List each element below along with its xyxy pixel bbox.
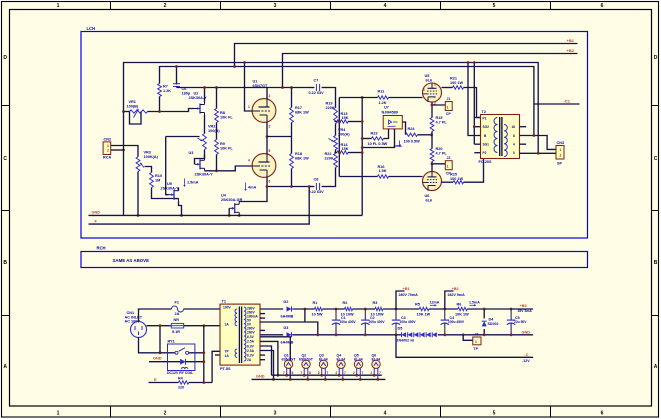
node heater Q4 bus joints	[338, 374, 341, 377]
svg-text:6L6: 6L6	[426, 78, 433, 82]
svg-text:VR2: VR2	[208, 125, 215, 129]
node heater Q5 bus joints	[355, 374, 358, 377]
connector CN1 AC inlet	[131, 322, 147, 338]
svg-text:LCH: LCH	[87, 26, 96, 31]
wire -C rail	[396, 335, 533, 358]
svg-text:100(B): 100(B)	[127, 104, 139, 108]
fuse F1	[172, 306, 184, 312]
wire cathode column upper	[431, 105, 433, 118]
svg-text:1: 1	[57, 411, 60, 417]
svg-text:6SN7GT: 6SN7GT	[282, 357, 297, 361]
svg-text:100(B): 100(B)	[208, 129, 220, 133]
svg-text:PT-5S: PT-5S	[220, 367, 231, 371]
wire heater stair 1	[260, 337, 290, 380]
wire SG2 stub	[474, 126, 480, 128]
svg-text:2: 2	[335, 371, 337, 375]
wire T2 P2 stub	[474, 152, 480, 154]
wire inlet neutral to NR	[147, 325, 172, 327]
svg-text:10K 1W: 10K 1W	[455, 312, 469, 316]
wire U5 drain	[178, 188, 180, 191]
svg-text:1.5mA: 1.5mA	[469, 301, 480, 305]
svg-text:SG2: SG2	[483, 125, 490, 129]
wire cathode2 down	[266, 177, 268, 187]
node C8 F junction	[308, 185, 311, 188]
wire CT return	[260, 322, 318, 335]
wire U5 gate loop	[166, 137, 169, 195]
svg-text:R18: R18	[295, 152, 302, 156]
diode D2	[287, 306, 292, 311]
svg-text:4: 4	[513, 143, 515, 147]
resistor R18	[290, 154, 294, 169]
wire cathode mid link	[431, 131, 433, 148]
svg-text:4: 4	[248, 159, 250, 163]
wire R13 leads	[335, 121, 338, 123]
svg-text:10 10W: 10 10W	[371, 312, 385, 316]
svg-text:1: 1	[57, 3, 60, 9]
wire R3 to R5	[383, 308, 419, 310]
wire C8 to R22	[332, 168, 336, 187]
wire 8 ohm tap to CN3	[520, 136, 557, 150]
resistor R13	[337, 120, 348, 123]
svg-text:RCH: RCH	[97, 246, 106, 251]
node 0 tap junction	[537, 152, 540, 155]
wire plate row 1	[267, 87, 309, 89]
connector CN2 RCA input	[103, 142, 111, 155]
svg-text:2A: 2A	[247, 358, 252, 362]
svg-text:68K 1W: 68K 1W	[295, 157, 309, 161]
T1 core	[238, 307, 240, 364]
svg-text:6A4MB: 6A4MB	[281, 315, 294, 319]
wire relay diode row right	[185, 361, 203, 363]
sheet box LCH	[81, 32, 588, 239]
svg-text:4: 4	[384, 411, 387, 417]
wire cathode1 to plate2	[266, 122, 268, 155]
svg-text:2A: 2A	[175, 312, 180, 316]
wire CN2 pin2	[111, 149, 125, 151]
resistor R9	[215, 140, 219, 155]
transistor U5 2SK30A-Y	[169, 194, 174, 196]
svg-text:1.2K: 1.2K	[163, 89, 171, 93]
svg-text:A: A	[3, 364, 7, 370]
svg-text:6A4MB: 6A4MB	[281, 340, 294, 344]
svg-text:6.3V: 6.3V	[247, 353, 255, 357]
wire R2 to R3	[353, 308, 376, 310]
svg-text:2: 2	[107, 148, 109, 152]
wire VR3 bottom to ground	[137, 172, 139, 216]
svg-text:2: 2	[560, 154, 562, 158]
svg-text:3: 3	[434, 83, 436, 87]
svg-text:RCA: RCA	[103, 155, 111, 159]
svg-text:U2: U2	[194, 92, 199, 96]
svg-text:B: B	[3, 260, 7, 266]
svg-text:280V 70mA: 280V 70mA	[399, 293, 419, 297]
svg-text:5: 5	[269, 149, 271, 153]
node heater Q1 bus joints	[285, 374, 288, 377]
wire U5 source to ground	[179, 201, 182, 215]
svg-text:U7: U7	[384, 106, 389, 110]
wire HT rail from T1	[260, 308, 283, 310]
svg-text:CP: CP	[446, 112, 452, 116]
svg-text:6L6: 6L6	[426, 198, 433, 202]
svg-text:+B2: +B2	[452, 287, 459, 291]
svg-text:C7: C7	[314, 79, 319, 83]
svg-text:T1: T1	[222, 300, 226, 304]
T2 secondary winding	[504, 125, 507, 157]
resistor R2	[345, 307, 353, 310]
svg-text:SAME AS ABOVE: SAME AS ABOVE	[113, 258, 150, 263]
svg-text:100 1W: 100 1W	[450, 177, 464, 181]
svg-text:RY1: RY1	[168, 340, 175, 344]
svg-text:R1: R1	[313, 301, 318, 305]
svg-text:R19: R19	[326, 102, 333, 106]
svg-text:3: 3	[274, 3, 277, 9]
wire grid row upper	[339, 97, 377, 99]
svg-text:10 FL 0.5W: 10 FL 0.5W	[368, 142, 388, 146]
wire R4 to T1 lower	[189, 382, 212, 384]
diode chain D5 1N4002 x6	[402, 332, 407, 337]
diode D3	[287, 332, 292, 337]
node VR3 ground	[137, 214, 140, 217]
svg-text:100K(A): 100K(A)	[144, 155, 159, 159]
wire VR3 input column	[111, 146, 138, 157]
svg-text:TP: TP	[474, 347, 479, 351]
wire U7 out to R24	[402, 122, 405, 135]
svg-text:2: 2	[353, 371, 355, 375]
svg-text:8: 8	[309, 371, 311, 375]
wire VR3 wiper to R10	[145, 167, 152, 173]
svg-text:100u 450V: 100u 450V	[400, 320, 417, 324]
svg-text:0.22 63V: 0.22 63V	[309, 91, 325, 95]
svg-text:100 0.5W: 100 0.5W	[404, 139, 421, 143]
capacitor C2	[364, 309, 366, 320]
svg-text:7: 7	[300, 371, 302, 375]
svg-text:-C: -C	[525, 353, 529, 357]
svg-text:3: 3	[269, 125, 271, 129]
svg-text:0: 0	[513, 151, 515, 155]
svg-text:J1: J1	[447, 97, 451, 101]
wire VR1 to U2 gate	[148, 109, 195, 112]
wire bottom bus left	[292, 334, 401, 336]
jumper J3 TP	[473, 337, 481, 345]
svg-text:R6: R6	[457, 303, 462, 307]
resistor R19	[334, 108, 338, 124]
svg-text:GND: GND	[92, 211, 101, 215]
wire +B1 riser	[396, 291, 405, 309]
svg-text:F1: F1	[175, 301, 179, 305]
capacitor C4	[444, 309, 446, 320]
svg-text:R3: R3	[373, 301, 378, 305]
svg-text:1: 1	[560, 148, 562, 152]
svg-text:J3: J3	[475, 333, 479, 337]
svg-text:22u 50V: 22u 50V	[514, 320, 527, 324]
capacitor C6 input	[173, 83, 180, 85]
wire NR to T1	[184, 325, 220, 327]
svg-text:CN3: CN3	[557, 141, 565, 145]
transformer T2 output	[481, 115, 520, 159]
svg-text:C: C	[3, 156, 7, 162]
svg-text:1A: 1A	[225, 354, 230, 358]
wire B feed	[468, 63, 481, 136]
wire cathode lower to jumper J2	[432, 162, 445, 164]
resistor R10	[150, 173, 154, 188]
svg-text:2.5A: 2.5A	[247, 349, 255, 353]
svg-text:4: 4	[384, 3, 387, 9]
svg-text:1: 1	[248, 105, 250, 109]
svg-text:DC12V RY COIL: DC12V RY COIL	[167, 371, 194, 375]
svg-text:A: A	[654, 364, 658, 370]
T2 primary winding	[494, 118, 498, 153]
svg-text:R7: R7	[163, 85, 168, 89]
svg-text:D: D	[3, 55, 7, 61]
capacitor C7 coupling	[309, 87, 315, 89]
svg-text:220: 220	[178, 385, 184, 389]
resistor R14	[337, 151, 348, 154]
resistor R6	[458, 307, 468, 310]
svg-text:U5: U5	[167, 182, 172, 186]
svg-text:1: 1	[475, 340, 477, 344]
svg-text:NR: NR	[174, 318, 180, 322]
tube U1 6SN7GT triode 2	[252, 154, 276, 178]
svg-text:4mA: 4mA	[394, 144, 402, 148]
svg-text:12mA: 12mA	[430, 301, 440, 305]
connector CN3 speaker	[556, 146, 564, 160]
wire plate lower to T2 P2	[464, 153, 484, 183]
svg-text:180p: 180p	[182, 92, 191, 96]
relay RY1	[168, 344, 195, 371]
svg-text:35V 3mA: 35V 3mA	[518, 309, 533, 313]
svg-text:R24: R24	[408, 127, 416, 131]
tube heater Q2 6SN7GT	[302, 360, 310, 368]
ic U7 regulator	[383, 116, 402, 129]
svg-text:6.3V: 6.3V	[247, 335, 255, 339]
resistor R4	[179, 381, 189, 384]
svg-text:2SK30A-Y: 2SK30A-Y	[195, 172, 214, 176]
tube U1 6SN7GT triode 1	[252, 99, 276, 123]
svg-text:FC-20S: FC-20S	[479, 160, 493, 164]
wire inlet live to fuse	[139, 309, 172, 322]
svg-text:280V: 280V	[247, 331, 256, 335]
svg-text:6: 6	[601, 411, 604, 417]
potentiometer VR2	[203, 134, 207, 150]
wire relay diode row left	[149, 361, 180, 363]
svg-text:1.5K: 1.5K	[379, 169, 387, 173]
wire heater stair 2	[260, 341, 278, 375]
svg-text:282V 9mA: 282V 9mA	[448, 293, 466, 297]
wire R24 to cathode column	[418, 134, 432, 136]
svg-text:1M: 1M	[155, 179, 160, 183]
svg-text:CN2: CN2	[104, 137, 112, 141]
node VR1 junctions	[122, 110, 125, 113]
wire R8 R9 link	[216, 123, 218, 140]
svg-text:1: 1	[447, 105, 449, 109]
svg-text:B: B	[654, 260, 658, 266]
node U3 source junction	[215, 169, 218, 172]
thermistor NR	[171, 323, 183, 328]
wire R17 leads	[291, 88, 293, 108]
node heater Q6 bus joints	[373, 374, 376, 377]
svg-text:GND: GND	[256, 375, 265, 379]
sheet box RCH	[81, 252, 588, 268]
resistor R21	[453, 86, 464, 89]
wire C7 to R19	[332, 88, 336, 108]
svg-text:2: 2	[164, 3, 167, 9]
wire R7 bottom to VR1 node	[159, 97, 161, 112]
svg-text:7: 7	[327, 371, 329, 375]
svg-text:SG1: SG1	[483, 143, 490, 147]
svg-text:+B3: +B3	[520, 304, 527, 308]
node feedback tap	[533, 134, 536, 137]
wire R5 to R6	[429, 308, 458, 310]
capacitor C1	[335, 309, 337, 320]
svg-text:C: C	[654, 156, 658, 162]
svg-text:GND: GND	[153, 357, 162, 361]
svg-text:D: D	[654, 55, 658, 61]
wire R14 leads	[335, 152, 338, 154]
wire heater stair 3	[260, 346, 272, 375]
relay coil marks	[182, 368, 188, 370]
wire VR2 bottom to U3	[195, 150, 205, 165]
zener D4	[483, 309, 485, 319]
wire U7 pin2 return	[362, 129, 394, 148]
svg-text:R23: R23	[371, 132, 378, 136]
wire C6 top lead	[176, 67, 178, 85]
svg-text:100 1W: 100 1W	[450, 81, 464, 85]
wire +B1 rail top	[235, 44, 578, 67]
svg-text:NJM4580: NJM4580	[382, 111, 398, 115]
tube heater Q3 EL34	[319, 360, 327, 368]
resistor R3	[375, 307, 383, 310]
wire heater bus 1	[272, 374, 382, 376]
wire heater bus 2	[252, 378, 386, 380]
wire T1 lower primary stubs	[212, 351, 220, 382]
resistor R20 screen lower	[430, 149, 434, 162]
resistor R23	[372, 137, 384, 140]
svg-text:6.3V: 6.3V	[247, 344, 255, 348]
resistor R17	[290, 108, 294, 123]
wire T2 P1 stub	[474, 117, 480, 119]
transistor U4 2SK30A-GR	[229, 207, 234, 209]
svg-text:15K: 15K	[342, 116, 349, 120]
svg-text:10K 1W: 10K 1W	[417, 312, 431, 316]
wire U4 gate to ground	[228, 208, 230, 215]
svg-text:1N4002 x6: 1N4002 x6	[397, 338, 415, 342]
svg-text:6: 6	[601, 3, 604, 9]
svg-text:5: 5	[493, 3, 496, 9]
svg-text:10 10W: 10 10W	[341, 312, 355, 316]
svg-text:1: 1	[423, 88, 425, 92]
svg-text:1.2K: 1.2K	[379, 101, 387, 105]
svg-text:2.5A: 2.5A	[247, 340, 255, 344]
wire NR to relay drop	[159, 326, 161, 353]
node cathode1 link	[266, 135, 269, 138]
svg-text:6: 6	[269, 180, 271, 184]
resistor R7	[158, 84, 162, 97]
svg-text:10 5W: 10 5W	[312, 312, 323, 316]
wire grid return column	[361, 98, 363, 216]
wire feedback rail A	[124, 63, 539, 154]
svg-text:+B2: +B2	[567, 48, 575, 53]
svg-text:CP: CP	[446, 171, 452, 175]
svg-text:100u 450V: 100u 450V	[448, 320, 465, 324]
svg-text:R10: R10	[155, 174, 162, 178]
svg-text:15K: 15K	[342, 147, 349, 151]
resistor R1	[315, 307, 323, 310]
frame column ticks	[110, 2, 112, 10]
svg-text:220K: 220K	[326, 106, 335, 110]
tube heater Q1 6SN7GT	[284, 360, 292, 368]
svg-text:4.7 PL: 4.7 PL	[436, 120, 448, 124]
resistor R15 screen upper	[430, 118, 434, 132]
svg-text:100u 400V: 100u 400V	[369, 320, 386, 324]
svg-text:-12V: -12V	[522, 359, 530, 363]
svg-text:R9: R9	[220, 142, 225, 146]
transistor U3 2SK30A-Y	[195, 163, 200, 165]
T1 right stubs NC	[260, 313, 265, 315]
wire D3 branch	[260, 334, 283, 336]
svg-text:7: 7	[362, 371, 364, 375]
wire relay feed vertical	[203, 326, 205, 383]
wire triode1 plate	[266, 88, 268, 100]
svg-text:6SN7GT: 6SN7GT	[253, 84, 268, 88]
capacitor C3	[395, 309, 397, 320]
wire R9 bottom	[216, 155, 218, 171]
node CN2 ground junction	[122, 149, 125, 152]
wire cathode lower tube	[431, 164, 433, 172]
svg-text:U3: U3	[189, 151, 194, 155]
T2 core	[499, 117, 501, 156]
svg-text:8: 8	[292, 371, 294, 375]
svg-text:0.22 63V: 0.22 63V	[309, 190, 325, 194]
capacitor C8 coupling	[309, 186, 315, 188]
svg-text:EL34: EL34	[337, 357, 346, 361]
resistor R25	[453, 181, 463, 184]
node rail B junctions	[175, 65, 178, 68]
wire plate upper to R21	[442, 87, 453, 89]
svg-text:SD202: SD202	[488, 322, 499, 326]
frame row ticks	[2, 105, 10, 107]
wire plate row 2 / C8 row	[267, 186, 309, 188]
svg-text:-C1: -C1	[564, 99, 571, 104]
resistor R16	[378, 175, 389, 178]
svg-text:2: 2	[370, 371, 372, 375]
wire R6 to end	[467, 308, 533, 310]
relay coil diode	[180, 359, 185, 365]
svg-text:220K: 220K	[325, 156, 334, 160]
svg-text:3: 3	[274, 411, 277, 417]
svg-text:EL34: EL34	[354, 357, 363, 361]
svg-text:EL34: EL34	[319, 357, 328, 361]
wire SG1 stub	[474, 143, 480, 145]
potentiometer VR3 volume	[136, 157, 140, 172]
wire R8 top lead	[216, 88, 218, 109]
resistor R11	[378, 96, 389, 99]
svg-text:J2: J2	[447, 156, 451, 160]
wire -C1 bias	[534, 103, 580, 105]
wire R18 bottom	[291, 169, 293, 187]
wire J3 branch	[463, 335, 473, 341]
capacitor C5	[510, 309, 512, 320]
svg-text:D2: D2	[284, 300, 289, 304]
wire U2 source to VR2	[204, 115, 206, 134]
svg-text:2SK30A-Y: 2SK30A-Y	[189, 96, 208, 100]
svg-text:SP: SP	[557, 162, 563, 166]
svg-text:2SK30A-Y: 2SK30A-Y	[161, 187, 180, 191]
wire plate lower to R25	[442, 181, 454, 183]
svg-text:68K 1W: 68K 1W	[295, 111, 309, 115]
resistor R24	[406, 133, 418, 136]
wire plate to T2 P1	[464, 88, 481, 118]
wire heater stair 4	[260, 351, 274, 380]
